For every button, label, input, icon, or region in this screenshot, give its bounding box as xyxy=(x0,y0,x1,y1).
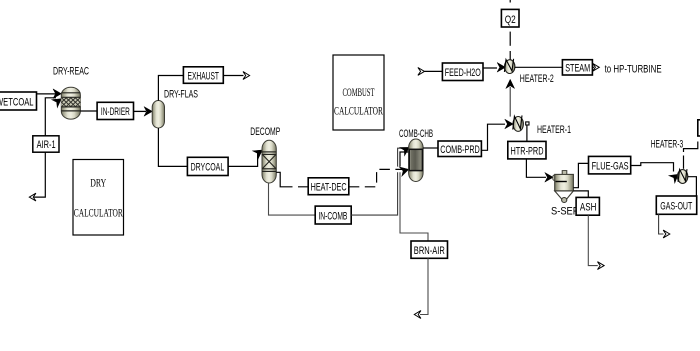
heat wire Q3 to HEATER-3 xyxy=(684,142,698,169)
wire S-SEP to ASH xyxy=(573,191,588,198)
reactor DRY-REAC xyxy=(61,87,80,119)
svg-text:S-SEP: S-SEP xyxy=(551,206,579,218)
svg-text:IN-DRIER: IN-DRIER xyxy=(101,106,130,118)
stream label DRYCOAL xyxy=(187,157,228,175)
stream label IN-COMB xyxy=(315,206,351,224)
wire STEAM outlet end xyxy=(592,63,599,71)
wire DRY-REAC to IN-DRIER xyxy=(80,110,97,112)
stream label STEAM xyxy=(562,60,592,75)
stream label HTR-PRD xyxy=(508,141,546,159)
svg-text:HEATER-3: HEATER-3 xyxy=(651,139,684,151)
svg-text:DRY-FLAS: DRY-FLAS xyxy=(164,89,198,101)
stream label BRN-AIR xyxy=(411,241,448,258)
wire COMB-PRD to HEATER-1 xyxy=(481,119,513,150)
heat stream label HEAT-DEC xyxy=(308,178,349,195)
stream label ASH xyxy=(576,197,599,215)
svg-text:DRY: DRY xyxy=(90,178,106,190)
svg-text:GAS-OUT: GAS-OUT xyxy=(660,200,692,212)
stream label FEED-H2O xyxy=(442,63,483,81)
reactor COMB-CHB xyxy=(409,139,424,182)
wire FEED-H2O feed xyxy=(418,68,497,76)
flash drum DRY-FLAS xyxy=(152,101,164,129)
heater HEATER-2 xyxy=(504,59,515,74)
svg-text:CALCULATOR: CALCULATOR xyxy=(74,208,123,220)
stream label IN-DRIER xyxy=(97,102,133,119)
svg-text:DRYCOAL: DRYCOAL xyxy=(191,162,225,174)
svg-text:ASH: ASH xyxy=(580,202,597,214)
svg-text:BRN-AIR: BRN-AIR xyxy=(414,245,445,257)
svg-text:to HP-TURBINE: to HP-TURBINE xyxy=(605,63,662,75)
svg-text:HTR-PRD: HTR-PRD xyxy=(511,146,544,158)
svg-text:IN-COMB: IN-COMB xyxy=(318,211,347,223)
cyclone S-SEP xyxy=(553,171,574,203)
stream label AIR-1 xyxy=(33,136,59,152)
svg-text:FLUE-GAS: FLUE-GAS xyxy=(592,160,629,172)
wire FLUE-GAS to HEATER-3 xyxy=(631,163,682,183)
wire DECOMP to IN-COMB xyxy=(269,183,316,215)
stream label FLUE-GAS xyxy=(589,156,631,174)
wire DRY-FLAS to DRYCOAL xyxy=(158,128,187,166)
svg-text:DECOMP: DECOMP xyxy=(250,126,280,138)
svg-text:COMB-PRD: COMB-PRD xyxy=(440,144,480,156)
heat wire Q2 to HEATER-2 xyxy=(509,32,511,60)
svg-text:COMBUST: COMBUST xyxy=(343,87,375,99)
wire GAS-OUT outlet end xyxy=(659,214,670,238)
svg-text:COMB-CHB: COMB-CHB xyxy=(399,128,433,140)
wire HTR-PRD to S-SEP xyxy=(526,159,553,182)
svg-text:EXHAUST: EXHAUST xyxy=(188,70,220,82)
stream label COMB-PRD xyxy=(438,141,481,157)
wire AIR-1 feed xyxy=(29,95,64,201)
heater HEATER-1 xyxy=(513,115,524,131)
reactor DECOMP xyxy=(262,140,276,183)
wire BRN-AIR source end xyxy=(414,258,428,318)
svg-text:HEAT-DEC: HEAT-DEC xyxy=(311,182,347,194)
calculator box COMBUST CALCULATOR xyxy=(333,55,384,130)
wire ASH outlet end xyxy=(588,215,604,269)
wire S-SEP to FLUE-GAS xyxy=(573,163,588,187)
heat wire HEATER-1 to HEATER-2 xyxy=(506,79,515,116)
wire HEATER-1 to HTR-PRD xyxy=(526,125,528,141)
wire DRY-FLAS to EXHAUST xyxy=(158,76,183,101)
heat stream label Q2 xyxy=(501,0,519,27)
heat wire DECOMP to HEAT-DEC xyxy=(276,172,308,187)
stream label EXHAUST xyxy=(183,67,223,84)
heat stream label box Q3 (clipped) xyxy=(698,120,700,136)
port square HEATER-1 outlet xyxy=(526,122,529,125)
svg-text:HEATER-1: HEATER-1 xyxy=(537,124,571,136)
svg-text:HEATER-2: HEATER-2 xyxy=(520,73,554,85)
wire IN-DRIER to DRY-FLAS xyxy=(134,107,153,117)
wire BRN-AIR feed to COMB-CHB xyxy=(400,152,428,241)
wire COMB-CHB to COMB-PRD xyxy=(423,147,438,149)
svg-text:Q2: Q2 xyxy=(505,14,516,26)
svg-text:AIR-1: AIR-1 xyxy=(37,139,56,151)
svg-text:WETCOAL: WETCOAL xyxy=(0,96,34,108)
wire EXHAUST outlet xyxy=(223,72,249,80)
svg-text:DRY-REAC: DRY-REAC xyxy=(53,66,89,78)
svg-text:STEAM: STEAM xyxy=(565,63,590,75)
wire IN-COMB to COMB-CHB xyxy=(351,143,412,215)
wire HEATER-3 to GAS-OUT xyxy=(688,177,697,196)
wire HEATER-2 to STEAM xyxy=(515,66,563,68)
wire arrow into HEATER-2 xyxy=(497,63,505,73)
svg-text:CALCULATOR: CALCULATOR xyxy=(334,106,383,118)
heat wire HEAT-DEC to COMB-CHB xyxy=(349,165,410,187)
wire WETCOAL to DRY-REAC xyxy=(37,89,62,99)
stream label GAS-OUT xyxy=(656,196,696,214)
calculator box DRY CALCULATOR xyxy=(73,160,124,236)
heater HEATER-3 xyxy=(677,169,687,183)
stream label WETCOAL xyxy=(0,92,37,110)
wire DRYCOAL to DECOMP xyxy=(228,146,265,166)
svg-text:FEED-H2O: FEED-H2O xyxy=(445,67,481,79)
